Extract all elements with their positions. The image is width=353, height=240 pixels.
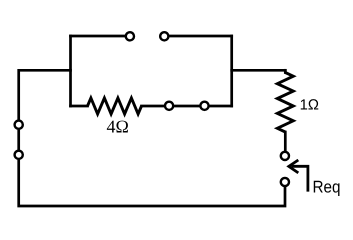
svg-text:1Ω: 1Ω bbox=[300, 98, 319, 114]
svg-text:Req: Req bbox=[313, 178, 341, 197]
svg-text:4Ω: 4Ω bbox=[107, 117, 129, 137]
